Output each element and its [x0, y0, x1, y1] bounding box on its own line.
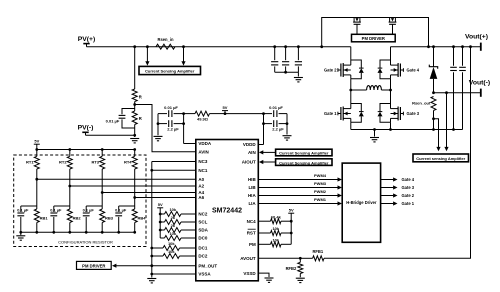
resistor RB2 [67, 206, 81, 232]
resistor RT2 [59, 150, 72, 170]
junction sense tap 1 [146, 45, 149, 48]
block PM DRIVER top [352, 34, 396, 42]
junction PM loop right [427, 45, 430, 48]
svg-text:AVIN: AVIN [198, 149, 208, 154]
resistor Rsen_in [156, 37, 175, 49]
junction RFB node [258, 257, 301, 260]
resistor 2k SDA [160, 223, 196, 232]
ground vddd filter [283, 136, 292, 140]
wire VSSD [258, 273, 269, 277]
block CSA to AIOUT [276, 159, 332, 166]
wire to VDDA pin [184, 143, 196, 145]
resistor 2k SCL [160, 215, 196, 224]
wire Vout- rail [432, 91, 481, 94]
svg-text:PV(+): PV(+) [78, 36, 96, 43]
wire 5V to vddd node [225, 113, 264, 115]
svg-text:RT1: RT1 [26, 160, 34, 165]
supply 5V left pullups [157, 202, 163, 238]
node Vout(-) terminal [469, 80, 490, 97]
svg-text:VSSA: VSSA [198, 272, 211, 277]
svg-text:NC2: NC2 [198, 212, 207, 217]
wire left leg top [350, 47, 352, 60]
block PM DRIVER bottom [77, 261, 112, 269]
svg-text:RB4: RB4 [138, 215, 147, 220]
wire NC rail [150, 162, 153, 278]
svg-text:Gate 4: Gate 4 [407, 68, 420, 73]
svg-text:0.01 µF: 0.01 µF [106, 119, 120, 124]
transistor PM FET 1 [353, 18, 361, 35]
wire feedback [324, 45, 472, 258]
resistor RFB2 [286, 258, 303, 277]
svg-text:10k: 10k [272, 226, 279, 231]
supply 5V mid [222, 105, 228, 115]
resistor 10k DC1 [152, 241, 196, 250]
capacitor 0.1uF RB3 [83, 206, 103, 232]
transistor Q3 Gate 3 [378, 104, 420, 123]
resistor RT4 [124, 150, 137, 170]
svg-text:H-Bridge Driver: H-Bridge Driver [346, 200, 377, 205]
svg-text:Vout(+): Vout(+) [465, 34, 488, 41]
supply 5V config [34, 139, 40, 150]
svg-text:Current Sensing Amplifier: Current Sensing Amplifier [279, 160, 329, 165]
svg-text:2k: 2k [171, 223, 176, 228]
svg-text:5V: 5V [289, 208, 294, 213]
svg-text:Gate 1: Gate 1 [324, 111, 337, 116]
junction vdda node [182, 112, 185, 143]
svg-text:5V: 5V [34, 139, 39, 144]
svg-text:10k: 10k [168, 249, 175, 254]
resistor 10k DC2 [152, 249, 196, 258]
svg-text:RFB1: RFB1 [312, 249, 323, 254]
svg-text:NC3: NC3 [198, 159, 207, 164]
svg-text:0.1 µF: 0.1 µF [50, 207, 62, 212]
wire divider drop [134, 47, 136, 89]
svg-text:AVOUT: AVOUT [240, 256, 256, 261]
svg-text:R: R [139, 116, 142, 121]
wire left leg bottom [350, 122, 352, 129]
svg-text:LIA: LIA [248, 201, 256, 206]
supply 5V right pullups [288, 208, 294, 245]
svg-text:RT2: RT2 [59, 160, 67, 165]
svg-text:DC1: DC1 [198, 246, 207, 251]
wire NC1 [152, 169, 196, 171]
svg-text:NC1: NC1 [198, 168, 207, 173]
svg-text:PWM1: PWM1 [314, 197, 327, 202]
svg-text:2.2 µF: 2.2 µF [167, 127, 179, 132]
svg-text:5V: 5V [223, 105, 228, 110]
capacitor 2.2uF vddd [264, 120, 288, 131]
svg-text:DC0: DC0 [198, 236, 207, 241]
svg-text:RST: RST [247, 231, 256, 236]
svg-text:60.4k: 60.4k [271, 214, 282, 219]
inductor L1 [351, 86, 391, 90]
svg-text:Rsen_out: Rsen_out [412, 101, 431, 106]
svg-text:Gate 4: Gate 4 [402, 177, 415, 182]
node PV(-) junction [133, 125, 136, 138]
transistor PM FET 2 [389, 18, 397, 35]
svg-text:5V: 5V [158, 202, 163, 207]
wire RT1 column [35, 169, 38, 206]
svg-text:10k: 10k [272, 238, 279, 243]
resistor RB3 [100, 206, 114, 232]
capacitor 0.1uF RB1 [17, 206, 37, 232]
svg-text:2k: 2k [171, 215, 176, 220]
svg-text:SCL: SCL [198, 220, 207, 225]
block H-Bridge Driver U2 [342, 163, 380, 242]
resistor RT1 [26, 150, 39, 170]
ground NC rail [147, 279, 156, 283]
capacitor bulk 1 [271, 47, 278, 72]
wire PV(-) to ground [86, 134, 135, 136]
svg-text:RB3: RB3 [105, 215, 114, 220]
wire AIN arrow [259, 150, 276, 154]
wire AIOUT arrow [259, 160, 276, 164]
wire config gnd rail [19, 231, 136, 234]
wire driver out Gate 4 [381, 177, 415, 182]
junction diode top [432, 45, 435, 48]
capacitor 0.01uF vdda [158, 105, 184, 117]
capacitor bulk 3 [295, 47, 302, 72]
svg-text:VDDD: VDDD [243, 142, 257, 147]
resistor R top [132, 89, 142, 102]
wire driver out Gate 1 [381, 201, 415, 206]
capacitor 0.01uF divider [106, 109, 135, 129]
wire vddd filter right [286, 114, 289, 135]
wire node to A2 [70, 185, 196, 187]
capacitor Cout1 [450, 45, 457, 131]
svg-text:PWM3: PWM3 [314, 181, 327, 186]
resistor RFB1 [300, 249, 324, 261]
svg-text:Vout(-): Vout(-) [469, 80, 490, 87]
svg-text:PWM2: PWM2 [314, 189, 327, 194]
wire Rsen taps [434, 93, 449, 152]
resistor 10k RST [258, 226, 291, 235]
svg-text:Rsen_in: Rsen_in [158, 37, 174, 42]
transistor Q4 Gate 4 [378, 60, 420, 79]
wire vdda filter left [157, 114, 160, 136]
junction bulk caps [273, 45, 299, 48]
svg-text:SDA: SDA [198, 228, 208, 233]
svg-text:Current Sensing Amplifier: Current Sensing Amplifier [145, 69, 195, 74]
node divider mid [133, 102, 136, 112]
capacitor Cout2 [459, 45, 466, 129]
node PV(-) terminal [78, 125, 94, 136]
svg-text:DC2: DC2 [198, 254, 207, 259]
wire NC3 [152, 161, 196, 163]
ground bulk caps [294, 72, 303, 82]
wire driver out Gate 3 [381, 185, 415, 190]
svg-text:10k: 10k [168, 241, 175, 246]
ground RFB2 [296, 278, 305, 282]
wire divider to AVIN [135, 105, 196, 152]
svg-text:RFB2: RFB2 [286, 266, 297, 271]
wire right leg top [390, 47, 392, 60]
svg-text:SM72442: SM72442 [212, 208, 242, 215]
svg-text:Gate 1: Gate 1 [402, 201, 415, 206]
resistor 49.9 ohm [184, 111, 225, 122]
svg-text:RB2: RB2 [73, 215, 82, 220]
svg-text:PV(-): PV(-) [78, 125, 94, 132]
capacitor 0.1uF RB2 [50, 206, 70, 232]
block CSA to AIN [276, 149, 332, 156]
svg-text:Gate 2: Gate 2 [402, 193, 415, 198]
svg-text:RT4: RT4 [124, 160, 132, 165]
ground config [16, 232, 25, 240]
wire driver out Gate 2 [381, 193, 415, 198]
svg-text:PM: PM [249, 242, 256, 247]
resistor RB4 [132, 206, 146, 232]
wire left leg mid [349, 79, 352, 104]
svg-text:HIA: HIA [248, 193, 257, 198]
svg-text:PM DRIVER: PM DRIVER [362, 36, 385, 41]
svg-text:RB1: RB1 [40, 215, 49, 220]
wire Vout+ rail [391, 46, 481, 48]
svg-text:RT3: RT3 [91, 160, 99, 165]
block output Current sensing Amplifier [413, 154, 469, 162]
resistor 10k PM [258, 238, 291, 247]
svg-text:0.01 µF: 0.01 µF [164, 105, 178, 110]
transistor Q2 Gate 2 [324, 60, 364, 79]
junction vddd node [262, 112, 265, 144]
ground vdda filter [154, 136, 163, 140]
wire node to A6 [135, 197, 196, 199]
svg-text:VDDA: VDDA [198, 141, 212, 146]
wire RT4 column [133, 169, 136, 206]
svg-text:LIB: LIB [248, 185, 256, 190]
boxframe CONFIGURATION RESISTOR [14, 155, 146, 247]
svg-text:Current sensing Amplifier: Current sensing Amplifier [416, 156, 465, 161]
wire PWM3 [258, 181, 342, 190]
block input Current Sensing Amplifier [139, 66, 201, 74]
resistor 10k DC0 [160, 231, 196, 240]
wire node to A0 [37, 178, 196, 180]
resistor 10k NC2 [160, 207, 196, 216]
svg-text:Gate 2: Gate 2 [324, 68, 337, 73]
wire RT3 column [101, 169, 104, 206]
diode D1 [429, 47, 437, 93]
svg-text:2.2 µF: 2.2 µF [272, 127, 284, 132]
svg-text:VSSD: VSSD [243, 271, 256, 276]
wire VSSA [152, 273, 196, 275]
svg-text:0.1 µF: 0.1 µF [83, 207, 95, 212]
capacitor 0.01uF vddd [264, 105, 288, 117]
svg-text:49.9Ω: 49.9Ω [197, 117, 209, 122]
wire RT2 column [68, 169, 71, 206]
svg-text:HIB: HIB [248, 177, 257, 182]
svg-text:NC4: NC4 [247, 219, 256, 224]
resistor RB1 [34, 206, 48, 232]
capacitor 2.2uF vdda [158, 120, 184, 131]
svg-text:PM_OUT: PM_OUT [198, 263, 217, 268]
wire PM loop [322, 18, 429, 47]
svg-text:PM DRIVER: PM DRIVER [82, 263, 105, 268]
ground bridge [370, 128, 379, 142]
op-amp U1 SM72442 [196, 140, 258, 281]
wire PV(+) rail [87, 46, 351, 48]
svg-text:AIN: AIN [248, 150, 256, 155]
wire node to A4 [102, 192, 196, 194]
wire right leg bottom [389, 122, 392, 131]
wire PWM1 [258, 197, 342, 206]
junction sense tap 2 [182, 45, 185, 48]
svg-text:10k: 10k [169, 207, 176, 212]
svg-text:0.1 µF: 0.1 µF [115, 207, 127, 212]
wire right leg mid [389, 79, 392, 104]
capacitor 0.1uF RB4 [115, 206, 135, 232]
svg-text:PWM4: PWM4 [314, 173, 327, 178]
svg-text:A2: A2 [198, 184, 204, 189]
resistor 60.4k NC4 [258, 214, 291, 223]
svg-text:10k: 10k [169, 231, 176, 236]
svg-text:Current Sensing Amplifier: Current Sensing Amplifier [279, 151, 329, 156]
junction PV+ divider tap [133, 45, 136, 48]
wire PWM2 [258, 189, 342, 198]
resistor RT3 [91, 150, 104, 170]
svg-text:CONFIGURATION RESISTOR: CONFIGURATION RESISTOR [58, 239, 113, 244]
svg-text:0.01 µF: 0.01 µF [269, 105, 283, 110]
svg-text:R: R [139, 95, 142, 100]
svg-text:Gate 3: Gate 3 [402, 185, 415, 190]
wire sense arrows [145, 47, 185, 66]
wire PWM4 [258, 173, 342, 182]
capacitor bulk 2 [282, 47, 289, 72]
transistor Q1 Gate 1 [324, 104, 364, 123]
junction PM loop left [320, 45, 323, 48]
node PV(+) terminal [78, 36, 96, 47]
svg-text:A0: A0 [198, 177, 204, 182]
wire bridge bottom rail [351, 129, 463, 131]
ground VSSD [265, 278, 274, 282]
resistor Rsen_out [412, 97, 436, 131]
svg-text:AIOUT: AIOUT [242, 160, 256, 165]
ground divider [130, 139, 139, 143]
svg-text:0.1 µF: 0.1 µF [17, 207, 29, 212]
resistor R bottom [132, 111, 142, 125]
node Vout(+) terminal [465, 34, 488, 51]
svg-text:A6: A6 [198, 195, 204, 200]
wire PM_OUT [112, 264, 196, 268]
wire bulk bottom rail [275, 71, 299, 74]
label CONFIGURATION RESISTOR [58, 239, 113, 244]
wire config 5V rail [35, 148, 136, 151]
svg-text:Gate 3: Gate 3 [407, 111, 420, 116]
wire to VDDD pin [258, 144, 263, 146]
